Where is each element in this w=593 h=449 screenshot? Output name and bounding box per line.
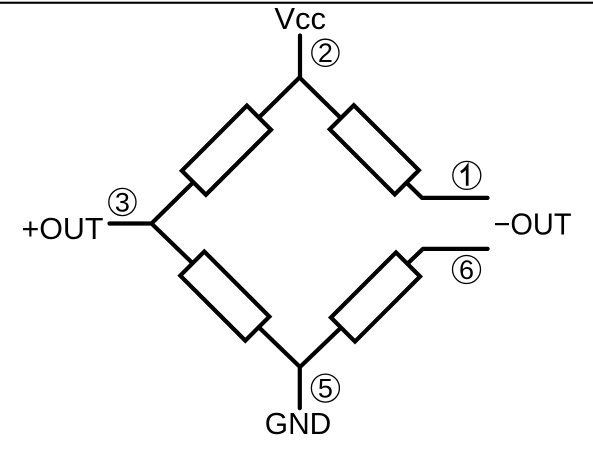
svg-text:−OUT: −OUT: [494, 207, 572, 242]
pin 3 circled: [109, 187, 136, 217]
wire top node to left node: [152, 78, 300, 224]
svg-text:+OUT: +OUT: [22, 211, 104, 246]
resistor lower-right: [331, 252, 420, 341]
resistor upper-right: [330, 105, 419, 194]
svg-text:3: 3: [115, 187, 130, 217]
wire +OUT lead: [110, 221, 152, 225]
top border line: [0, 2, 593, 4]
resistor upper-left: [182, 106, 271, 195]
pin 6 circled: [453, 255, 481, 285]
svg-text:2: 2: [318, 38, 333, 68]
wire top node to terminal 1: [300, 78, 488, 198]
pin 1 circled: [453, 161, 481, 189]
svg-text:5: 5: [318, 373, 333, 403]
svg-text:GND: GND: [265, 406, 332, 441]
pin 5 circled: [311, 373, 339, 403]
svg-text:6: 6: [459, 255, 474, 285]
resistor lower-left: [180, 252, 269, 341]
svg-text:Vcc: Vcc: [274, 1, 326, 36]
pin 2 circled: [312, 38, 339, 68]
wire left node to bottom node: [152, 224, 301, 368]
wire GND stub: [298, 367, 302, 408]
wire Vcc stub: [298, 36, 302, 78]
wire bottom node to terminal 6: [300, 249, 488, 367]
